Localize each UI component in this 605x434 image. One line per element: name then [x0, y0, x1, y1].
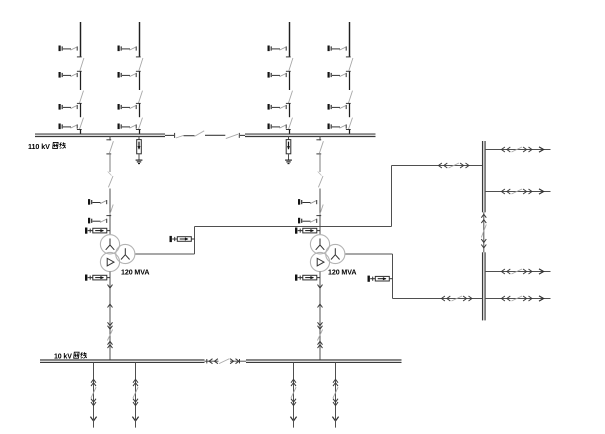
draw-out breaker 10kV feeder 1 contacts a — [91, 379, 96, 386]
disconnector QS21 blade — [139, 58, 143, 71]
earthing switch T1ES1 — [88, 199, 107, 205]
arrow MV feeder 1 outgoing — [539, 147, 544, 152]
disconnector T1QS1 upper contact — [106, 139, 111, 141]
draw-out breaker T1 incomer contacts a — [108, 322, 113, 329]
earthing switch feeder 3 ES3 — [268, 104, 287, 110]
earthing switch feeder 3 ES1 — [268, 46, 287, 52]
draw-out breaker MV feeder 1 — [502, 147, 532, 152]
disconnector QS32 lower contact — [286, 102, 291, 104]
disconnector QS33 blade — [289, 118, 293, 130]
surge arrester T1 HV side — [85, 228, 110, 234]
disconnector QS41 blade — [349, 58, 353, 71]
surge arrester T2 tertiary — [368, 276, 393, 282]
draw-out breaker 10kV feeder 1 blade — [91, 387, 96, 398]
earthing switch feeder 3 ES4 — [268, 124, 287, 130]
earthing switch feeder 1 ES2 — [59, 72, 78, 78]
wire feeder 3 segment c — [289, 103, 291, 117]
surge arrester F1 with ground — [136, 137, 143, 164]
disconnector QS31 upper contact — [286, 56, 291, 58]
wire incoming line feeder 2 — [139, 22, 141, 57]
disconnector QS11 upper contact — [77, 56, 82, 58]
wire T2 HV segment b — [319, 154, 321, 172]
arrow MV feeder 4 outgoing — [539, 296, 544, 301]
earthing switch T2ES2 — [298, 218, 317, 224]
disconnector QS31 lower contact — [286, 70, 291, 72]
wire T1 HV segment c — [109, 189, 111, 235]
110kV bus tie link wire left — [165, 134, 174, 136]
disconnector QS41 upper contact — [346, 56, 351, 58]
arrow 10kV feeder 1 to load — [90, 417, 96, 421]
svg-text:110 kV: 110 kV — [28, 142, 50, 151]
draw-out breaker 10kV feeder 3 contacts a — [291, 379, 296, 386]
disconnector QS23 lower contact — [136, 129, 141, 131]
draw-out breaker 10kV feeder 4 contacts b — [333, 399, 338, 406]
earthing switch feeder 4 ES4 — [328, 124, 347, 130]
10kV bus tie contacts left — [209, 359, 218, 364]
10kV bus tie wire b — [230, 360, 246, 362]
draw-out breaker MV feeder 3 — [502, 269, 532, 274]
wire T1 tertiary horizontal — [135, 253, 194, 255]
wire MV feeder 1 — [485, 149, 550, 151]
disconnector QS12 blade — [80, 91, 84, 103]
disconnector QS11 lower contact — [77, 70, 82, 72]
earthing switch T1ES2 — [88, 218, 107, 224]
arrow 10kV feeder 2 to load — [132, 417, 138, 421]
disconnector T1QS1 blade — [109, 141, 113, 153]
10kV bus tie contacts right — [230, 359, 239, 364]
wire MV feeder 2 — [485, 191, 550, 193]
wire feeder 2 segment b — [139, 71, 141, 90]
wire 10kV feeder 3 tail — [293, 415, 295, 428]
disconnector QS11 blade — [80, 58, 84, 71]
arrow 10kV feeder 4 to load — [332, 417, 338, 421]
MV bus section I (vertical) — [483, 141, 486, 212]
wire feeder 2 segment c — [139, 103, 141, 117]
wire feeder 1 segment b — [80, 71, 82, 90]
wire feeder 4 segment b — [349, 71, 351, 90]
wire 10kV feeder 1 — [93, 363, 95, 417]
wire transformer T1 HV drop — [109, 137, 111, 141]
disconnector T1QS2 blade — [110, 205, 114, 216]
wire T2 tertiary horizontal — [345, 253, 392, 255]
earthing switch feeder 4 ES2 — [328, 72, 347, 78]
draw-out breaker 10kV feeder 2 blade — [133, 387, 138, 398]
wire MV incomer 2 — [393, 298, 483, 300]
wire T2 tertiary drop — [392, 254, 394, 299]
disconnector QS12 lower contact — [77, 102, 82, 104]
wire MV incomer 1 — [392, 165, 483, 167]
disconnector QS21 upper contact — [136, 56, 141, 58]
110kV bus tie breaker blade — [195, 131, 205, 137]
disconnector QS22 lower contact — [136, 102, 141, 104]
110kV bus tie wire a — [184, 135, 195, 137]
draw-out contact T1 LV lower — [108, 304, 113, 307]
wire 10kV feeder 4 tail — [335, 415, 337, 428]
earthing switch T2ES1 — [298, 199, 317, 205]
draw-out breaker T2 incomer blade — [317, 330, 322, 341]
draw-out breaker 10kV feeder 3 contacts b — [291, 399, 296, 406]
disconnector T1QS2 contact — [106, 215, 111, 217]
draw-out breaker MV incomer 1 — [439, 163, 469, 168]
earthing switch feeder 2 ES4 — [118, 124, 137, 130]
110kV bus tie wire b — [205, 134, 225, 136]
disconnector T2QS1 blade — [319, 141, 323, 153]
wire feeder 4 segment d — [349, 130, 351, 136]
label transformer T1 120 MVA — [121, 268, 149, 276]
draw-out breaker T1 incomer contacts b — [108, 341, 113, 348]
wire feeder 4 segment c — [349, 103, 351, 117]
wire MV feeder 3 — [485, 271, 550, 273]
svg-text:120 MVA: 120 MVA — [121, 268, 149, 276]
svg-text:10 kV: 10 kV — [54, 353, 72, 360]
surge arrester T1 LV side — [85, 275, 110, 281]
wire feeder 2 segment d — [139, 130, 141, 136]
disconnector QS31 blade — [289, 58, 293, 71]
disconnector QS43 lower contact — [346, 129, 351, 131]
wire T2 LV drop — [319, 272, 321, 360]
disconnector QS41 lower contact — [346, 70, 351, 72]
earthing switch feeder 4 ES1 — [328, 46, 347, 52]
label 10kV bus — [54, 352, 87, 360]
draw-out breaker T2 incomer contacts a — [318, 322, 323, 329]
earthing switch feeder 3 ES2 — [268, 72, 287, 78]
label 110kV bus — [28, 142, 66, 151]
earthing switch feeder 2 ES1 — [118, 46, 137, 52]
wire feeder 1 segment c — [80, 103, 82, 117]
110kV bus tie right contact — [238, 133, 240, 138]
10kV bus section I — [40, 360, 205, 363]
draw-out breaker 10kV feeder 4 blade — [333, 387, 338, 398]
wire incoming line feeder 3 — [289, 22, 291, 57]
wire 10kV feeder 2 tail — [135, 415, 137, 428]
MV bus tie lower contacts — [481, 239, 486, 248]
draw-out breaker 10kV feeder 2 contacts b — [133, 399, 138, 406]
earthing switch feeder 1 ES1 — [59, 46, 78, 52]
wire feeder 3 segment d — [289, 130, 291, 136]
wire 10kV feeder 1 tail — [93, 415, 95, 428]
draw-out breaker MV feeder 2 — [502, 189, 532, 194]
wire feeder 3 segment b — [289, 71, 291, 90]
draw-out breaker 10kV feeder 2 contacts a — [133, 379, 138, 386]
disconnector QS13 blade — [80, 118, 84, 130]
disconnector T2QS1 upper contact — [316, 139, 321, 141]
wire MV feeder 4 — [485, 298, 550, 300]
transformer T2 (three-winding 110/35/10kV) — [310, 235, 345, 272]
wire incoming line feeder 1 — [80, 22, 82, 57]
wire incoming line feeder 4 — [349, 22, 351, 57]
disconnector QS42 lower contact — [346, 102, 351, 104]
earthing switch feeder 4 ES3 — [328, 104, 347, 110]
wire feeder 1 segment d — [80, 130, 82, 136]
wire T1 LV drop — [109, 272, 111, 360]
110kV bus tie left contact — [174, 133, 176, 138]
svg-text:120 MVA: 120 MVA — [328, 268, 356, 276]
wire 10kV feeder 4 — [335, 363, 337, 417]
10kV bus section II — [246, 360, 402, 363]
110kV bus section II — [245, 134, 376, 137]
10kV bus tie right contact — [239, 359, 241, 363]
surge arrester F2 with ground — [285, 137, 292, 164]
110kV bus tie disconnector QSR blade — [226, 134, 238, 138]
wire T2 HV segment c — [319, 189, 321, 235]
draw-out breaker 10kV feeder 3 blade — [291, 387, 296, 398]
disconnector T2QS1 lower contact — [316, 153, 321, 155]
disconnector QS33 lower contact — [286, 129, 291, 131]
arrow 10kV feeder 3 to load — [290, 417, 296, 421]
draw-out breaker MV feeder 4 — [502, 296, 532, 301]
wire T1 HV segment b — [109, 154, 111, 172]
110kV bus section I — [35, 134, 165, 137]
disconnector QS23 blade — [139, 118, 143, 130]
disconnector QS13 lower contact — [77, 129, 82, 131]
earthing switch feeder 2 ES2 — [118, 72, 137, 78]
disconnector T2QS2 blade — [320, 205, 324, 216]
10kV bus tie blade — [219, 359, 230, 364]
110kV bus tie disconnector QSL blade — [176, 136, 184, 139]
surge arrester T1 tertiary — [170, 236, 195, 242]
10kV bus tie left contact — [206, 359, 208, 363]
earthing switch feeder 1 ES3 — [59, 104, 78, 110]
transformer T1 (three-winding 110/35/10kV) — [100, 235, 135, 272]
draw-out breaker T2 incomer contacts b — [318, 341, 323, 348]
draw-out contact T1 LV upper — [108, 285, 113, 288]
draw-out breaker MV incomer 2 — [442, 296, 472, 301]
MV bus tie wire — [483, 212, 485, 252]
disconnector QS42 blade — [349, 91, 353, 103]
wire 10kV feeder 2 — [135, 363, 137, 417]
disconnector T1QS1 lower contact — [106, 153, 111, 155]
10kV bus tie wire a — [205, 360, 219, 362]
wire 10kV feeder 3 — [293, 363, 295, 417]
earthing switch feeder 1 ES4 — [59, 124, 78, 130]
draw-out contact T2 LV lower — [318, 304, 323, 307]
draw-out breaker 10kV feeder 4 contacts a — [333, 379, 338, 386]
draw-out breaker T1 incomer blade — [107, 330, 112, 341]
draw-out breaker 10kV feeder 1 contacts b — [91, 399, 96, 406]
draw-out contact T2 LV upper — [318, 285, 323, 288]
disconnector QS22 blade — [139, 91, 143, 103]
breaker T1QF blade — [108, 172, 113, 188]
110kV bus tie link wire right — [240, 134, 245, 136]
earthing switch feeder 2 ES3 — [118, 104, 137, 110]
wire tertiary riser to MV bus I — [391, 166, 393, 227]
MV bus section II (vertical) — [483, 252, 486, 320]
wire T1 tertiary riser — [194, 227, 196, 255]
disconnector QS43 blade — [349, 118, 353, 130]
surge arrester T2 LV side — [295, 275, 320, 281]
disconnector T2QS2 contact — [316, 215, 321, 217]
wire transformer T2 HV drop — [319, 137, 321, 141]
disconnector QS32 blade — [289, 91, 293, 103]
breaker T2QF blade — [318, 172, 323, 188]
surge arrester T2 HV side — [295, 228, 320, 234]
arrow MV feeder 2 outgoing — [539, 189, 544, 194]
arrow MV feeder 3 outgoing — [539, 269, 544, 274]
wire tertiary long run — [195, 226, 392, 228]
disconnector QS21 lower contact — [136, 70, 141, 72]
label transformer T2 120 MVA — [328, 268, 356, 276]
MV bus tie blade — [481, 225, 486, 238]
MV bus tie upper contacts — [481, 214, 486, 223]
